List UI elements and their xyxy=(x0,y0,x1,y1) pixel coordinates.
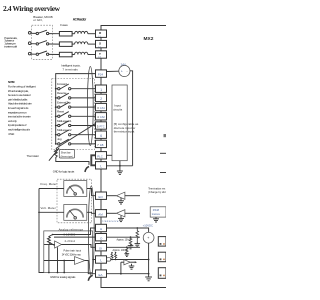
wire pulse to EA xyxy=(85,261,96,274)
terminal 1 xyxy=(96,85,107,92)
terminal S/L2 xyxy=(96,40,107,48)
wire xyxy=(88,54,96,56)
breaker pole 2 xyxy=(36,41,49,45)
switch RV xyxy=(57,93,71,99)
MX2 inverter enclosure outline xyxy=(101,26,166,288)
wire comparator out arrow xyxy=(130,261,137,263)
ground OI input xyxy=(124,253,129,257)
wire EO to amp xyxy=(107,195,117,197)
wire xyxy=(88,33,96,35)
terminal 3/GS1 xyxy=(96,103,107,110)
resistor pull 1 xyxy=(111,252,113,260)
ground analog common xyxy=(145,274,152,281)
svg-text:Reset: Reset xyxy=(57,110,64,114)
short bar label box xyxy=(59,150,74,158)
svg-text:GND for logic inputs: GND for logic inputs xyxy=(53,170,75,174)
wire pulse load drop xyxy=(63,261,65,273)
svg-text:Approx. 100 Ω: Approx. 100 Ω xyxy=(113,249,128,252)
switch MS1 xyxy=(57,121,71,127)
wire 4-20mA in xyxy=(44,244,55,246)
wire serial S- xyxy=(160,172,166,174)
svg-text:+10VDC: +10VDC xyxy=(143,223,153,227)
svg-text:AC Reactor: AC Reactor xyxy=(73,18,87,22)
svg-text:+: + xyxy=(147,236,149,240)
svg-text:PLC: PLC xyxy=(97,154,102,158)
phase R input: source node xyxy=(28,32,31,35)
node O resistor xyxy=(130,236,132,238)
meter M1 (frequency) xyxy=(64,181,87,197)
svg-text:(Change by slid: (Change by slid xyxy=(148,191,166,194)
meter M2 (voltage) xyxy=(64,205,87,221)
wire 0-10VDC to O xyxy=(54,236,96,238)
ground logic common xyxy=(117,166,123,175)
wire xyxy=(72,43,75,45)
wire MS2 to terminal 6 xyxy=(71,134,96,136)
wire comparator in xyxy=(121,261,124,263)
fuse F1 xyxy=(59,32,72,37)
svg-text:24V: 24V xyxy=(121,62,126,66)
switch ET xyxy=(57,102,71,108)
10V reference source xyxy=(143,232,154,243)
wire 24V return down xyxy=(130,71,133,166)
wire L analog common xyxy=(111,259,149,261)
wire xyxy=(88,43,96,45)
ground amp A2 xyxy=(118,216,124,222)
switch FW xyxy=(57,84,71,90)
intelligent inputs dashed enclosure xyxy=(52,78,95,149)
svg-text:Multi-speed 1: Multi-speed 1 xyxy=(57,119,72,123)
wire pot to H xyxy=(53,228,96,235)
wire EA tap up xyxy=(120,262,122,274)
node pulse common xyxy=(63,272,65,274)
svg-text:OI: OI xyxy=(99,246,102,250)
svg-text:L: L xyxy=(100,165,102,169)
svg-text:Approx. 10 kΩ: Approx. 10 kΩ xyxy=(117,239,131,242)
node pot common xyxy=(48,272,50,274)
switch MS2 xyxy=(57,130,71,136)
svg-text:AM: AM xyxy=(98,213,103,217)
meters dashed enclosure xyxy=(57,179,92,223)
svg-text:H: H xyxy=(100,227,102,231)
node analog common xyxy=(148,273,150,275)
phase S input: source node xyxy=(28,42,31,45)
24V supply source xyxy=(119,65,130,76)
wire amp common drop xyxy=(57,247,59,272)
svg-text:6: 6 xyxy=(100,134,102,138)
svg-text:thermistor input: thermistor input xyxy=(114,130,135,134)
svg-text:PTC: PTC xyxy=(100,125,105,128)
wire bus to meter M2 xyxy=(39,211,64,213)
wire RV to terminal 2 xyxy=(71,97,96,99)
svg-text:MX2: MX2 xyxy=(144,36,154,42)
node bus RS xyxy=(55,115,57,117)
terminal 2 xyxy=(96,94,107,101)
wire MS1 to terminal 5 xyxy=(71,125,96,127)
svg-text:2: 2 xyxy=(100,97,102,101)
svg-text:circuits: circuits xyxy=(113,107,123,111)
terminal R/L1 xyxy=(96,30,107,38)
svg-text:transce: transce xyxy=(152,213,161,216)
ground O input xyxy=(128,244,134,248)
node bus RV xyxy=(55,97,57,99)
breaker CB dashed box xyxy=(32,25,53,59)
amp 4-20mA xyxy=(55,241,62,248)
node bus FW xyxy=(55,88,57,90)
potentiometer VR xyxy=(48,235,55,246)
output terminal box (cut) 1 xyxy=(158,237,166,247)
svg-text:-: - xyxy=(127,69,128,73)
node OI resistor xyxy=(126,246,128,248)
wire OI xyxy=(107,246,141,248)
wire RS to terminal 4 xyxy=(71,115,96,117)
wire AM to amp xyxy=(107,212,117,214)
AC reactor coil L1 xyxy=(75,31,88,33)
terminal P24 xyxy=(96,70,107,77)
svg-text:T: T xyxy=(99,52,101,56)
wire analog box common to L xyxy=(93,259,96,261)
node amp common xyxy=(57,272,59,274)
thermistor RT xyxy=(49,148,60,161)
svg-text:GS2: GS2 xyxy=(100,116,106,119)
node bus JG xyxy=(55,143,57,145)
wire amp A1 out xyxy=(125,195,140,197)
terminal PLC xyxy=(96,152,107,159)
svg-text:P24: P24 xyxy=(98,73,104,77)
AC reactor coil L3 xyxy=(75,52,88,54)
amp pulse xyxy=(75,257,86,265)
wire FW to terminal 1 xyxy=(71,88,96,90)
svg-text:Volt. Meter: Volt. Meter xyxy=(41,206,56,210)
wire xyxy=(72,54,75,56)
resistor H bleed xyxy=(136,228,139,242)
ground amp A1 xyxy=(118,198,124,204)
serial port cut label xyxy=(164,134,167,137)
svg-text:GND for analog signals: GND for analog signals xyxy=(50,275,76,279)
input circuits box xyxy=(112,85,127,161)
RS485 transceiver box xyxy=(150,207,166,217)
switch RS xyxy=(57,112,71,118)
svg-text:L: L xyxy=(100,259,102,263)
svg-text:External Trip: External Trip xyxy=(57,100,71,104)
svg-text:GS1: GS1 xyxy=(100,107,106,110)
wire meter M2 to AM xyxy=(87,212,96,213)
fuse F2 xyxy=(59,42,72,47)
wire pulse in xyxy=(44,260,75,262)
wire thermistor to terminal 5 xyxy=(56,124,95,149)
node bus MS2 xyxy=(55,134,57,136)
svg-text:RS48: RS48 xyxy=(153,209,160,212)
resistor pull 2 xyxy=(115,252,117,260)
wire xyxy=(31,32,36,34)
comparator EA xyxy=(124,260,130,265)
wire meter M1 to EO xyxy=(87,189,96,196)
wire P24 to 24V supply xyxy=(107,70,119,72)
stub input circuits to L xyxy=(119,161,121,166)
terminal T/L3 xyxy=(96,51,107,59)
note [5] configurable xyxy=(114,122,139,133)
wire xyxy=(31,53,36,55)
resistor OI input xyxy=(126,247,128,253)
node bus MS1 xyxy=(55,125,57,127)
wire xyxy=(31,43,36,45)
svg-text:transceiver: transceiver xyxy=(103,220,120,223)
wire 4-20mA to OI xyxy=(62,245,96,248)
svg-text:Freq. Meter: Freq. Meter xyxy=(41,182,57,186)
svg-text:Jog: Jog xyxy=(57,137,62,141)
breaker pole 3 xyxy=(36,51,49,55)
L tab xyxy=(107,258,111,261)
node L common xyxy=(119,165,121,167)
terminal 7/EB xyxy=(96,140,107,147)
svg-text:inverter model: inverter model xyxy=(4,45,17,49)
output terminal box (cut) 2 xyxy=(158,252,166,262)
terminal 4/GS2 xyxy=(96,113,107,120)
svg-text:Short bar: Short bar xyxy=(61,151,71,154)
ground comparator xyxy=(129,264,135,269)
terminal L (analog) xyxy=(96,256,107,263)
cable bundle oval (inputs) xyxy=(87,67,93,146)
node bus M2 xyxy=(38,211,40,213)
svg-text:1: 1 xyxy=(100,88,102,92)
wire xyxy=(49,33,60,35)
input common bus xyxy=(56,74,96,144)
ground H bleed xyxy=(135,242,141,247)
node bus ET xyxy=(55,106,57,108)
svg-text:24 VDC 32kHz max.: 24 VDC 32kHz max. xyxy=(62,253,82,256)
wire JG to terminal 7 xyxy=(71,143,96,145)
fuse F3 xyxy=(59,52,72,57)
resistor O input xyxy=(129,237,132,245)
svg-text:4-20mA: 4-20mA xyxy=(65,240,76,243)
shield attach mark (analog) xyxy=(88,275,92,281)
cable bundle oval (analog) xyxy=(88,186,94,276)
svg-text:0-10VDC: 0-10VDC xyxy=(64,233,76,236)
wire serial S+ xyxy=(160,152,166,154)
svg-text:2.4 Wiring overview: 2.4 Wiring overview xyxy=(3,4,61,13)
NOTE text block xyxy=(8,80,36,136)
svg-text:4.7 kΩ: 4.7 kΩ xyxy=(8,132,15,136)
wire 10V ref to analog common xyxy=(148,243,150,274)
node EA tap xyxy=(120,273,122,275)
breaker pole 1 xyxy=(36,30,49,34)
terminal L (logic) xyxy=(96,162,107,169)
terminal 5/PTC xyxy=(96,122,107,129)
svg-text:+: + xyxy=(121,69,123,73)
terminal H xyxy=(96,224,107,231)
svg-text:or GFI,: or GFI, xyxy=(33,18,43,22)
wire O xyxy=(107,236,141,238)
wire ET to terminal 3 xyxy=(71,106,96,108)
terminal EO xyxy=(96,192,107,199)
wire H to 10V ref xyxy=(107,228,149,232)
svg-text:Termination res: Termination res xyxy=(148,188,166,191)
wire EA xyxy=(107,273,149,275)
svg-text:EA: EA xyxy=(99,273,103,277)
svg-text:(Source type): (Source type) xyxy=(61,155,73,158)
node H resistor xyxy=(136,227,138,229)
wire bus to meter M1 xyxy=(39,188,64,190)
analog common bus xyxy=(39,189,44,273)
output terminal box (cut) 3 xyxy=(158,268,166,279)
node L common join xyxy=(148,259,150,261)
svg-text:S: S xyxy=(99,42,101,46)
AC reactor coil L2 xyxy=(75,42,88,44)
svg-text:Multi-speed 2: Multi-speed 2 xyxy=(57,128,72,132)
svg-text:Pulse train input: Pulse train input xyxy=(64,250,82,253)
wire xyxy=(49,43,60,45)
switch JG xyxy=(57,139,71,145)
wire thermistor to L xyxy=(56,159,89,165)
amp A1 (EO output) xyxy=(116,192,125,199)
amp A2 (AM output) xyxy=(116,210,125,217)
wire xyxy=(49,53,60,55)
terminal 6 xyxy=(96,131,107,138)
terminal EA xyxy=(96,270,107,277)
wire amp A2 out xyxy=(125,212,140,214)
svg-text:EB: EB xyxy=(100,144,104,147)
analog reference box xyxy=(44,231,93,273)
node pulse tap xyxy=(63,260,65,262)
short bar jumper PLC-L xyxy=(91,155,95,165)
wire PLC to input circuits xyxy=(107,154,113,156)
phase T input: source node xyxy=(28,52,31,55)
svg-text:Thermistor: Thermistor xyxy=(27,154,40,158)
ground RS485 xyxy=(153,217,159,222)
wire L common xyxy=(107,165,133,167)
svg-text:Fuses: Fuses xyxy=(60,23,68,27)
shield attach mark xyxy=(85,167,89,173)
terminal OI xyxy=(96,244,107,251)
terminal O xyxy=(96,234,107,241)
terminal AM xyxy=(96,210,107,217)
svg-text:7 terminals: 7 terminals xyxy=(62,67,78,71)
svg-text:EO: EO xyxy=(99,195,104,199)
wire xyxy=(72,33,75,35)
wire pot bottom to common xyxy=(48,244,50,272)
